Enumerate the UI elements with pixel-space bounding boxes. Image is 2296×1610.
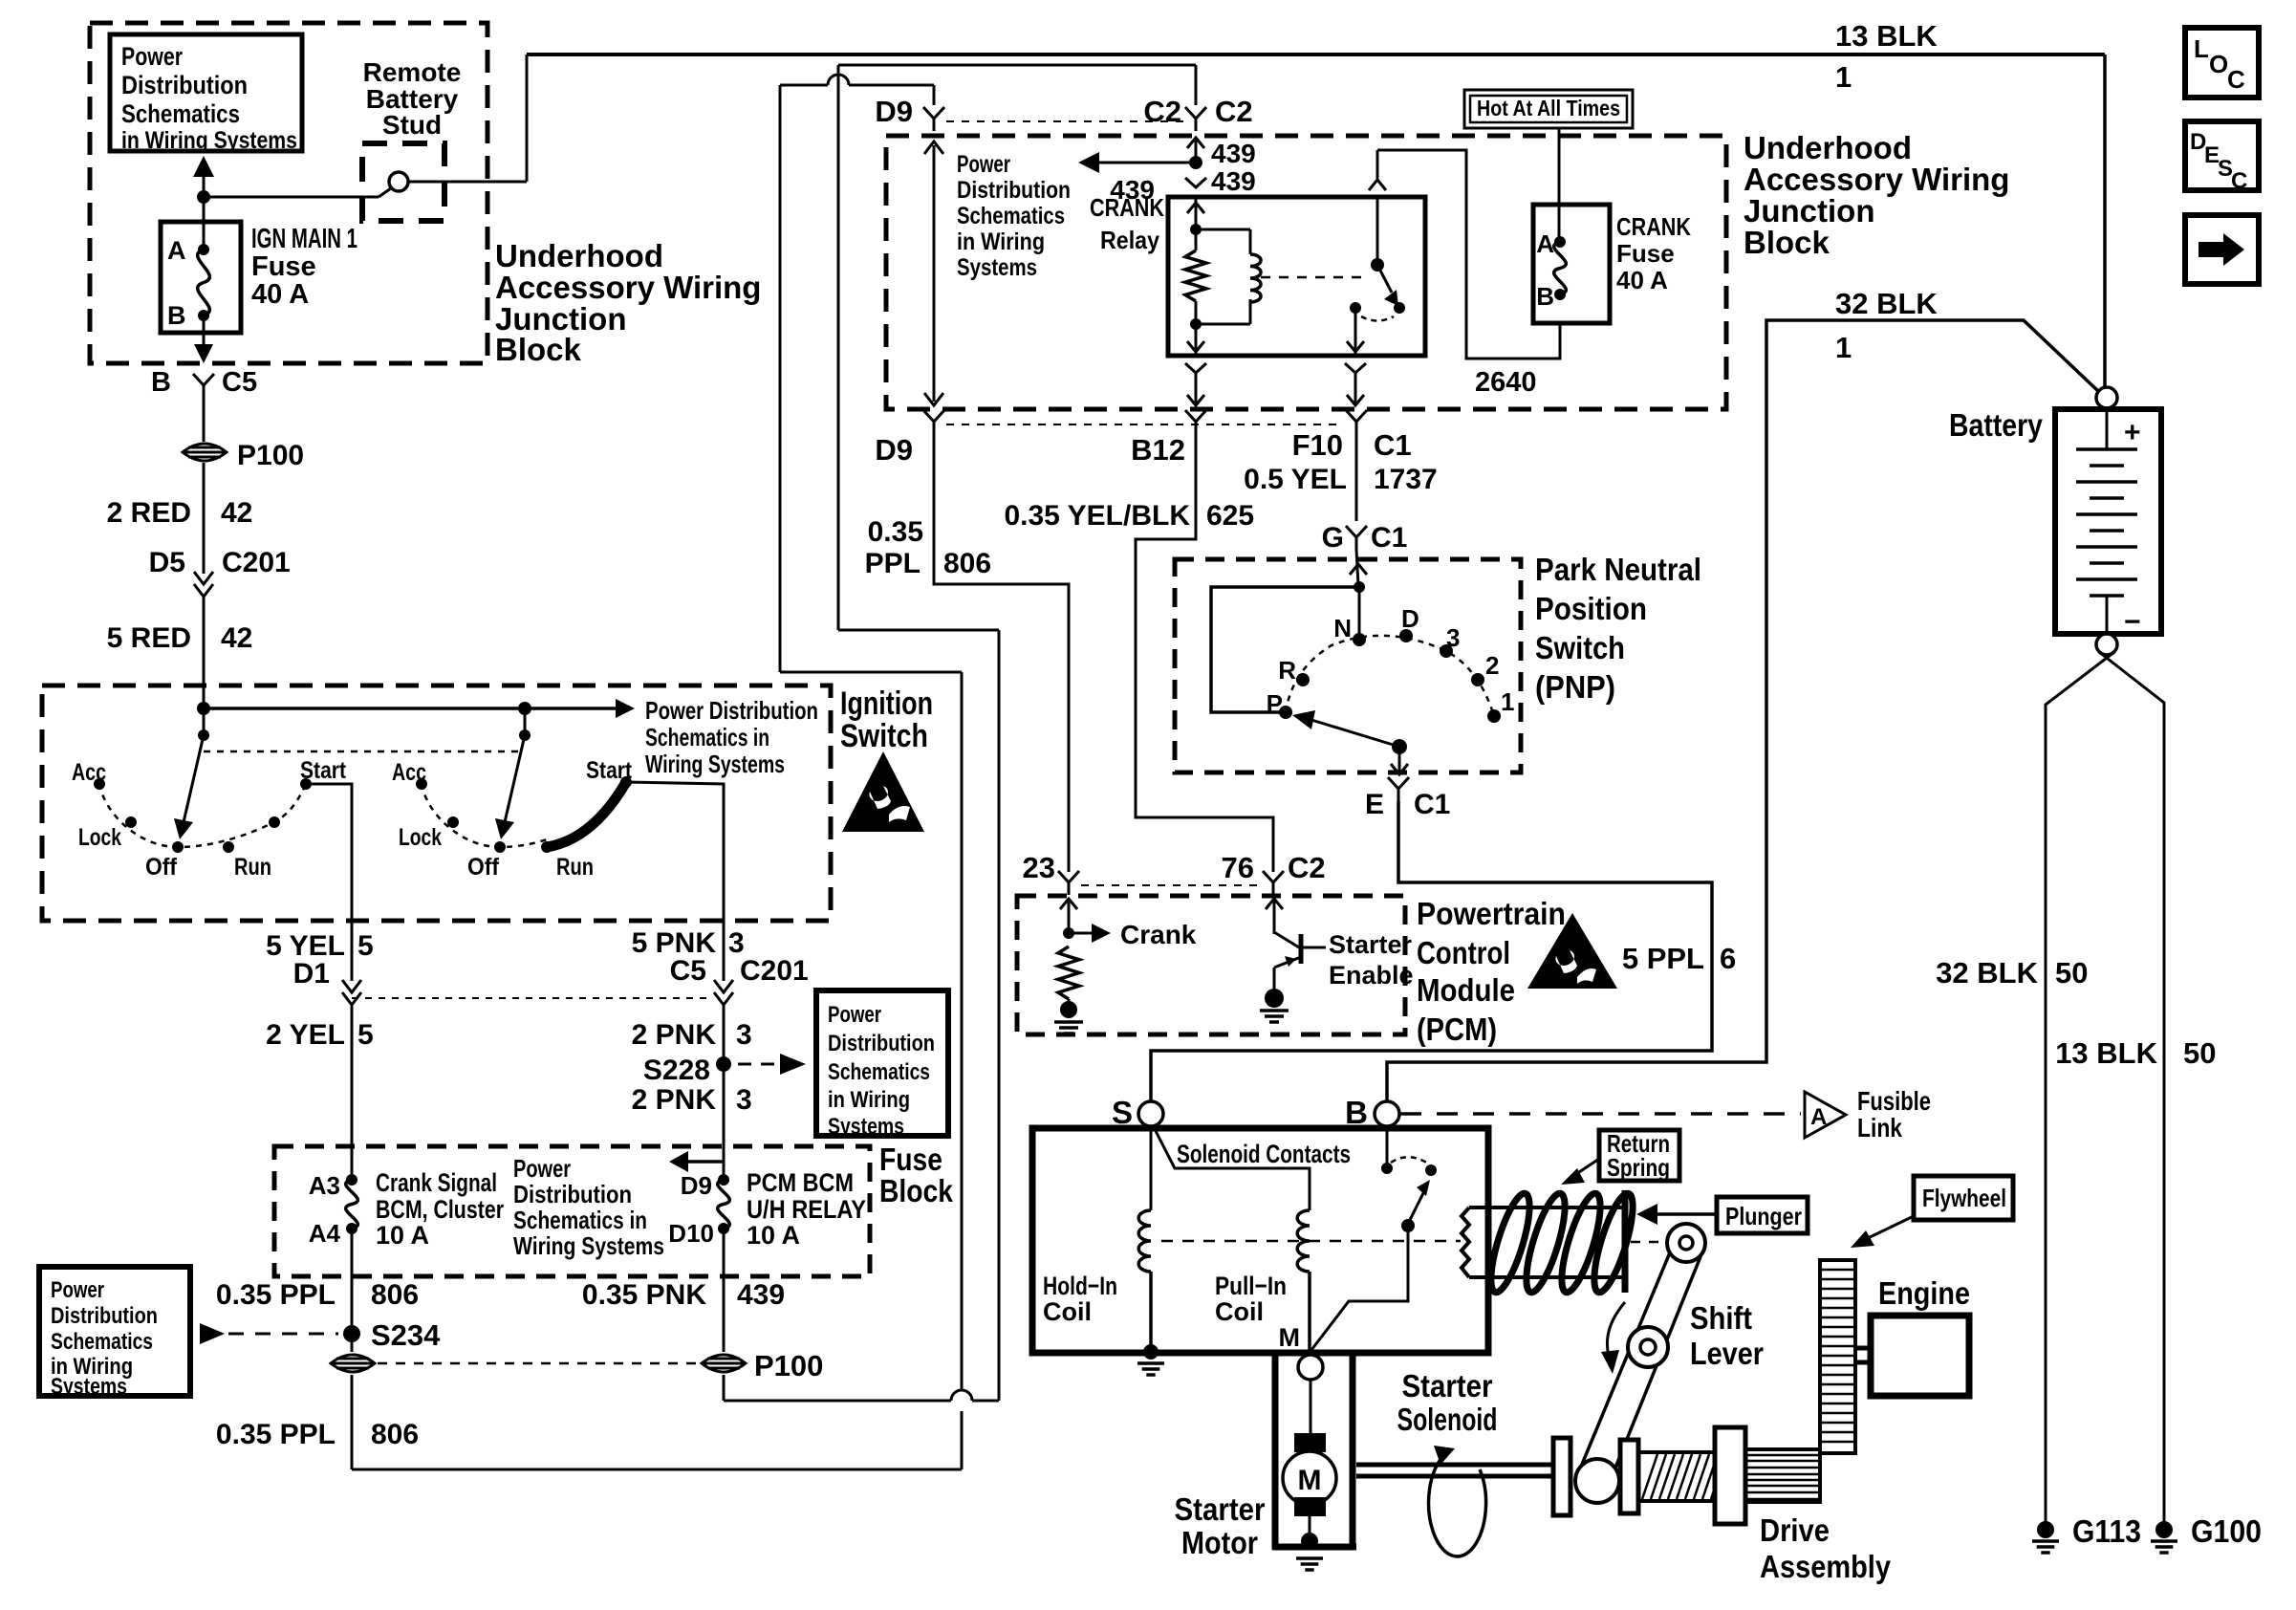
svg-text:2640: 2640 xyxy=(1475,367,1537,398)
fuse Crank Signal BCM Cluster 10 A xyxy=(309,1171,358,1248)
wire 13 BLK (top bus) xyxy=(527,19,2105,94)
svg-text:Link: Link xyxy=(1857,1113,1902,1142)
svg-text:2: 2 xyxy=(1485,651,1499,680)
svg-text:2 RED: 2 RED xyxy=(107,497,191,529)
svg-text:C201: C201 xyxy=(222,547,291,578)
svg-text:76: 76 xyxy=(1222,851,1254,884)
battery + terminal xyxy=(2096,387,2117,408)
label box: Power Distribution Schematics in Wiring Systems xyxy=(110,34,302,154)
boxed label: Power Distribution Schematics in Wiring Systems (S228) xyxy=(816,990,948,1140)
svg-text:Plunger: Plunger xyxy=(1725,1202,1802,1230)
svg-text:Battery: Battery xyxy=(1949,407,2044,443)
arrow: plunger leader xyxy=(1636,1204,1717,1225)
svg-text:Schematics: Schematics xyxy=(121,99,240,128)
svg-text:2 PNK: 2 PNK xyxy=(632,1019,717,1051)
svg-text:F10: F10 xyxy=(1292,428,1343,462)
wire PPL vertical mid-run with hop crossing xyxy=(961,672,964,1390)
svg-text:in Wiring: in Wiring xyxy=(957,228,1045,255)
svg-text:1: 1 xyxy=(1835,331,1852,364)
label: Power Distribution Schematics in Wiring Systems (fuse block) xyxy=(513,1154,664,1260)
svg-text:(PNP): (PNP) xyxy=(1535,669,1615,705)
label: Power Distribution Schematics in Wiring Systems (junction block) xyxy=(957,151,1071,281)
connector C201 (double chevron) xyxy=(714,980,733,992)
PCM pin connectors 23 / 76 C2 xyxy=(1081,884,1262,886)
relay switch: common pivot and arm xyxy=(1371,197,1405,314)
svg-text:2 YEL: 2 YEL xyxy=(266,1019,345,1051)
svg-text:3: 3 xyxy=(1446,623,1460,652)
svg-text:+: + xyxy=(2124,417,2141,448)
svg-text:Block: Block xyxy=(1744,225,1830,260)
svg-text:3: 3 xyxy=(736,1019,752,1051)
svg-text:Distribution: Distribution xyxy=(957,177,1071,204)
wire 2 RED 42 xyxy=(107,463,253,574)
svg-text:0.5 YEL: 0.5 YEL xyxy=(1244,464,1347,495)
svg-text:Schematics in: Schematics in xyxy=(513,1206,647,1234)
wire: stud to IGN MAIN feed xyxy=(204,196,379,199)
dashed box: Park Neutral Position Switch xyxy=(1175,559,1521,772)
arrow: feed from D9 wire to left xyxy=(669,1151,724,1172)
dashed actuation axis xyxy=(1161,1240,1461,1243)
svg-text:BCM, Cluster: BCM, Cluster xyxy=(376,1195,504,1224)
svg-text:32 BLK: 32 BLK xyxy=(1835,287,1938,320)
label: Underhood Accessory Wiring Junction Block (right) xyxy=(1744,130,2009,260)
svg-text:S: S xyxy=(1112,1095,1133,1130)
svg-text:Acc: Acc xyxy=(392,759,426,786)
wire 0.35 PPL 806 to PCM 23 xyxy=(865,434,1069,872)
hold-in coil xyxy=(1138,1126,1151,1348)
wiper 1 arrow to Off xyxy=(174,735,204,839)
rotation arrow xyxy=(1429,1446,1486,1556)
svg-text:13 BLK: 13 BLK xyxy=(1835,19,1938,53)
svg-text:Systems: Systems xyxy=(957,254,1037,281)
shift lever xyxy=(1575,1224,1705,1503)
svg-text:Park Neutral: Park Neutral xyxy=(1535,552,1701,587)
svg-text:A4: A4 xyxy=(309,1219,341,1248)
svg-text:B: B xyxy=(1345,1095,1368,1130)
svg-text:Control: Control xyxy=(1417,935,1510,970)
node dots on feed bus xyxy=(197,702,210,715)
svg-text:Position: Position xyxy=(1535,591,1647,626)
dashed box: Ignition Switch xyxy=(42,685,831,921)
wire: D9 pass-through inside junction block (both-end arrows) xyxy=(924,141,943,405)
svg-text:Run: Run xyxy=(556,854,594,881)
svg-text:P: P xyxy=(1267,689,1283,718)
wire/arrow: 439 feed to left xyxy=(1078,152,1196,205)
svg-text:A3: A3 xyxy=(309,1171,340,1200)
flywheel ring gear xyxy=(1820,1260,1855,1453)
svg-text:Distribution: Distribution xyxy=(828,1031,935,1056)
svg-text:A: A xyxy=(1536,229,1554,258)
svg-text:Crank Signal: Crank Signal xyxy=(376,1168,497,1197)
svg-text:C201: C201 xyxy=(740,955,809,987)
wire 5 PPL 6 : PNP E to solenoid S xyxy=(1151,801,1736,1101)
label 5 YEL 5 / D1 xyxy=(266,930,374,990)
switch 2 closed contact Run-Start (thick arc) xyxy=(547,782,626,847)
svg-text:Off: Off xyxy=(467,854,500,881)
svg-text:E: E xyxy=(1365,789,1384,820)
shaft flange xyxy=(1553,1438,1570,1515)
svg-text:3: 3 xyxy=(736,1084,752,1116)
terminal S xyxy=(1112,1095,1163,1130)
svg-text:Run: Run xyxy=(234,854,271,881)
dashed gang line between switch wipers xyxy=(204,751,525,753)
rotary switch 2 contacts xyxy=(416,776,632,853)
svg-text:Wiring Systems: Wiring Systems xyxy=(645,750,785,778)
connector D1 (double chevron) xyxy=(342,980,361,992)
svg-text:C5: C5 xyxy=(222,367,257,398)
svg-text:PCM BCM: PCM BCM xyxy=(747,1168,854,1197)
wiper 2 stem xyxy=(519,708,531,741)
svg-text:C1: C1 xyxy=(1374,428,1412,462)
remote battery stud (dashed box with terminal circle) xyxy=(362,143,444,221)
svg-text:D: D xyxy=(1401,604,1419,633)
svg-text:625: 625 xyxy=(1206,500,1254,532)
svg-text:Flywheel: Flywheel xyxy=(1922,1184,2006,1212)
svg-text:Lever: Lever xyxy=(1690,1336,1764,1371)
battery plates xyxy=(2076,409,2141,638)
svg-text:C2: C2 xyxy=(1143,95,1181,128)
label: IGN MAIN 1 Fuse 40 A xyxy=(251,224,357,310)
dashed wire: B to fusible link xyxy=(1400,1112,1801,1116)
svg-text:Off: Off xyxy=(145,854,178,881)
svg-text:1737: 1737 xyxy=(1374,464,1438,495)
svg-text:439: 439 xyxy=(1211,139,1256,168)
svg-text:A: A xyxy=(167,236,186,265)
svg-text:Power: Power xyxy=(51,1277,104,1303)
svg-text:B: B xyxy=(1536,282,1554,311)
svg-text:Schematics: Schematics xyxy=(957,203,1065,229)
node: 439 junction dot + arrows at C2 entry xyxy=(1185,138,1256,196)
svg-text:D9: D9 xyxy=(875,95,913,128)
svg-text:Systems: Systems xyxy=(51,1374,127,1400)
connector B / C5 xyxy=(151,367,257,398)
PNP contact arc dots N R P D 3 2 1 xyxy=(1279,629,1501,723)
svg-text:0.35 YEL/BLK: 0.35 YEL/BLK xyxy=(1004,500,1190,532)
svg-text:Module: Module xyxy=(1417,972,1515,1008)
label: CRANK Fuse 40 A xyxy=(1616,212,1691,294)
wire 0.5 YEL 1737 to PNP G xyxy=(1244,434,1438,521)
label 2 PNK 3 (lower) xyxy=(632,1084,752,1116)
label: Hold-In Coil xyxy=(1043,1272,1117,1326)
label: Fuse Block xyxy=(879,1142,954,1208)
wire 32 BLK 50 to G113 xyxy=(1936,652,2114,1522)
terminal M xyxy=(1279,1323,1324,1380)
dashed link plunger to shift lever xyxy=(1631,1241,1665,1244)
svg-text:Hold−In: Hold−In xyxy=(1043,1272,1117,1300)
wire: Hot feed down to CRANK fuse xyxy=(1558,128,1561,242)
svg-text:42: 42 xyxy=(221,497,252,529)
svg-text:1: 1 xyxy=(1501,687,1514,716)
svg-text:1: 1 xyxy=(1835,60,1852,94)
dashed connector line D9-C2 xyxy=(946,120,1183,122)
splice S228 xyxy=(643,1054,806,1086)
svg-text:40 A: 40 A xyxy=(1616,266,1668,294)
svg-text:13 BLK: 13 BLK xyxy=(2055,1036,2157,1070)
icon: ignition switch ESD triangle xyxy=(842,751,924,832)
svg-text:Fuse: Fuse xyxy=(879,1142,942,1177)
wire into PNP xyxy=(1350,550,1367,585)
svg-text:Powertrain: Powertrain xyxy=(1417,896,1566,931)
PNP wiper output arrow down xyxy=(1391,754,1408,774)
svg-text:6: 6 xyxy=(1720,942,1736,975)
svg-text:32 BLK: 32 BLK xyxy=(1936,956,2038,990)
return spring label box xyxy=(1599,1129,1679,1182)
svg-text:5 RED: 5 RED xyxy=(107,622,191,654)
svg-text:5: 5 xyxy=(357,1019,374,1051)
node: junction dot on IGN MAIN wire xyxy=(197,190,210,204)
svg-text:Junction: Junction xyxy=(1744,193,1875,228)
svg-text:Drive: Drive xyxy=(1760,1512,1830,1548)
PNP wiper arm to P xyxy=(1292,710,1407,754)
svg-text:Enable: Enable xyxy=(1329,961,1414,990)
svg-text:0.35 PNK: 0.35 PNK xyxy=(582,1279,706,1311)
label: Starter Solenoid xyxy=(1397,1368,1498,1437)
wire 0.35 PPL 806 (below fuse) xyxy=(216,1229,419,1334)
svg-text:Underhood: Underhood xyxy=(1744,130,1912,165)
svg-text:C2: C2 xyxy=(1215,95,1253,128)
svg-text:50: 50 xyxy=(2055,956,2088,990)
wire PPL: P100 down, right, up (left leg) xyxy=(216,1375,962,1469)
wire PNK: P100 down, right with hop, up (right leg) xyxy=(724,630,999,1401)
arrow: shift lever motion xyxy=(1601,1302,1625,1374)
icon: DESC box xyxy=(2185,121,2259,194)
svg-text:Spring: Spring xyxy=(1607,1153,1670,1182)
fuse CRANK 40 A xyxy=(1533,205,1610,323)
plunger body xyxy=(1462,1190,1625,1293)
wire to P100 xyxy=(203,398,206,442)
svg-text:in Wiring: in Wiring xyxy=(828,1087,910,1113)
svg-text:439: 439 xyxy=(737,1279,785,1311)
label: Starter Motor xyxy=(1175,1491,1266,1560)
svg-text:D5: D5 xyxy=(149,547,185,578)
svg-text:G100: G100 xyxy=(2191,1513,2262,1549)
svg-text:S228: S228 xyxy=(643,1055,710,1086)
wire 0.35 PNK 439 (below fuse) xyxy=(582,1229,785,1352)
PNP contact labels xyxy=(1267,604,1515,718)
svg-text:in Wiring Systems: in Wiring Systems xyxy=(121,127,297,154)
rotary switch 2 labels xyxy=(392,757,633,881)
svg-text:Power: Power xyxy=(828,1002,881,1028)
svg-text:G: G xyxy=(1322,522,1344,554)
plunger label box xyxy=(1717,1197,1808,1233)
svg-text:M: M xyxy=(1298,1465,1322,1496)
remote battery stud label xyxy=(363,57,462,140)
dashed box: PCM xyxy=(1017,896,1405,1034)
svg-text:D1: D1 xyxy=(293,958,330,990)
relay output pins below box xyxy=(1185,363,1206,405)
boxed label: Power Distribution Schematics in Wiring Systems (bottom-left) xyxy=(39,1267,190,1400)
wire 5 RED 42 xyxy=(107,597,253,708)
svg-text:Starter: Starter xyxy=(1402,1368,1493,1403)
svg-text:S234: S234 xyxy=(371,1318,441,1352)
PNP frame (inner box) xyxy=(1211,587,1359,712)
svg-text:D10: D10 xyxy=(668,1219,714,1248)
label: Drive Assembly xyxy=(1760,1512,1892,1584)
junction block bottom connectors D9 B12 F10 C1 xyxy=(946,424,1343,425)
relay switch: NO contact xyxy=(1347,302,1394,354)
svg-text:Fuse: Fuse xyxy=(1616,239,1675,268)
svg-text:Fusible: Fusible xyxy=(1857,1086,1931,1116)
dashed box: Fuse Block xyxy=(274,1146,870,1276)
svg-text:Switch: Switch xyxy=(840,718,928,754)
battery - terminal xyxy=(2096,634,2117,655)
rotary switch 1 labels xyxy=(72,757,347,881)
svg-text:0.35 PPL: 0.35 PPL xyxy=(216,1419,336,1450)
svg-text:5 PPL: 5 PPL xyxy=(1622,942,1704,975)
svg-text:G113: G113 xyxy=(2072,1513,2141,1549)
wire: S to pull-in coil (under label) xyxy=(1156,1131,1310,1210)
label: Crank Signal BCM, Cluster 10 A xyxy=(376,1168,504,1250)
label: Hot At All Times (double box) xyxy=(1464,90,1633,128)
motor shaft xyxy=(1356,1465,1553,1476)
solenoid box xyxy=(1032,1128,1488,1353)
fuse PCM BCM U/H RELAY 10 A xyxy=(668,1171,729,1248)
arrow + dashed leader to S234 xyxy=(200,1323,338,1344)
svg-text:Motor: Motor xyxy=(1181,1525,1258,1560)
svg-text:806: 806 xyxy=(371,1419,419,1450)
svg-text:Remote: Remote xyxy=(363,57,462,87)
connector P100 (pair, bottom) xyxy=(331,1334,823,1382)
relay coil bottom node + exit arrow xyxy=(1187,318,1204,354)
wire 0.35 YEL/BLK 625 to PCM 76 xyxy=(1004,434,1273,872)
wire 2 PNK 3 (upper) xyxy=(632,1005,752,1180)
svg-text:Starter: Starter xyxy=(1329,930,1413,959)
svg-text:Starter: Starter xyxy=(1175,1491,1266,1527)
svg-text:Ignition: Ignition xyxy=(840,685,933,722)
node: G input dot xyxy=(1354,581,1365,593)
svg-text:PPL: PPL xyxy=(865,548,921,579)
label 5 PNK 3 / C5 C201 xyxy=(632,927,809,987)
wire PPL: across and up to D9 (y=703 / x=816 / y=89) xyxy=(780,75,962,672)
wire + arrow leaving fuse down xyxy=(194,315,213,363)
svg-text:Underhood: Underhood xyxy=(495,238,663,273)
svg-text:806: 806 xyxy=(943,548,991,579)
svg-text:C2: C2 xyxy=(1288,851,1326,884)
arrow up to Power Distribution Schematics xyxy=(193,156,214,197)
svg-text:Distribution: Distribution xyxy=(513,1180,632,1208)
svg-text:CRANK: CRANK xyxy=(1616,212,1691,241)
starter motor brushes + armature xyxy=(1283,1380,1336,1537)
svg-text:C: C xyxy=(2231,168,2247,194)
relay: dashed actuation link xyxy=(1261,276,1367,279)
svg-text:Schematics: Schematics xyxy=(51,1329,153,1355)
svg-text:P100: P100 xyxy=(237,440,304,471)
svg-text:IGN MAIN 1: IGN MAIN 1 xyxy=(251,224,357,254)
PCM starter enable transistor xyxy=(1260,899,1414,1022)
return spring coils xyxy=(1484,1190,1640,1296)
svg-text:M: M xyxy=(1279,1323,1301,1352)
svg-text:Schematics: Schematics xyxy=(828,1059,930,1085)
wire: Start 1 output xyxy=(306,784,352,981)
svg-text:−: − xyxy=(2124,606,2141,638)
connector P100 (top) xyxy=(183,440,304,471)
svg-text:Accessory Wiring: Accessory Wiring xyxy=(495,270,761,305)
rotary switch 1 contacts (Acc Lock Off Run Start) xyxy=(94,778,312,853)
svg-text:Solenoid: Solenoid xyxy=(1397,1402,1498,1437)
dashed connector line C201 xyxy=(352,997,713,999)
wiper 1 stem xyxy=(198,708,209,741)
svg-text:439: 439 xyxy=(1211,166,1256,196)
svg-text:C: C xyxy=(2227,65,2245,94)
svg-text:D9: D9 xyxy=(681,1171,712,1200)
relay resistor xyxy=(1185,250,1206,301)
dashed box: Underhood Accessory Wiring Junction Block (top-middle) xyxy=(886,136,1726,409)
connector G / C1 xyxy=(1322,522,1408,554)
splice S234 xyxy=(343,1318,441,1352)
svg-text:P100: P100 xyxy=(754,1349,823,1382)
svg-text:R: R xyxy=(1278,656,1296,685)
wire PNK: across and up to C2 (y=659 / x=877 / y=68) xyxy=(838,65,1196,630)
pull-in coil xyxy=(1297,1210,1310,1351)
svg-text:B: B xyxy=(167,301,186,330)
label: Flywheel (boxed) xyxy=(1914,1176,2013,1220)
wire: S feed from PCM/PNP net xyxy=(1150,1051,1152,1101)
svg-text:Coil: Coil xyxy=(1215,1297,1264,1326)
label: PCM BCM U/H RELAY 10 A xyxy=(747,1168,866,1250)
svg-text:40 A: 40 A xyxy=(251,279,309,310)
wire: Start 2 output xyxy=(626,782,724,981)
svg-text:CRANK: CRANK xyxy=(1090,193,1164,222)
svg-text:C5: C5 xyxy=(670,955,706,987)
label: CRANK Relay xyxy=(1090,193,1164,254)
svg-text:Shift: Shift xyxy=(1690,1300,1752,1336)
relay box (CRANK Relay) xyxy=(1168,197,1425,356)
connector E / C1 xyxy=(1365,777,1450,820)
icon: PCM ESD triangle xyxy=(1527,913,1617,989)
svg-text:Systems: Systems xyxy=(828,1114,904,1140)
starter motor housing xyxy=(1272,1353,1356,1550)
svg-text:B: B xyxy=(151,367,171,398)
svg-text:Relay: Relay xyxy=(1100,226,1159,254)
ground G100 xyxy=(2151,1513,2262,1553)
arrow: flywheel leader xyxy=(1851,1216,1914,1248)
svg-text:Acc: Acc xyxy=(72,759,106,786)
ground: hold-in coil xyxy=(1137,1344,1164,1375)
svg-text:Assembly: Assembly xyxy=(1760,1549,1892,1584)
wire 32 BLK 1 : from battery to solenoid B xyxy=(1387,287,2099,1101)
relay common feed from crank fuse xyxy=(1369,150,1560,398)
svg-text:Coil: Coil xyxy=(1043,1297,1092,1326)
svg-text:806: 806 xyxy=(371,1279,419,1311)
svg-text:U/H RELAY: U/H RELAY xyxy=(747,1195,866,1224)
label: Fusible Link xyxy=(1857,1086,1931,1142)
svg-text:Fuse: Fuse xyxy=(251,251,316,282)
svg-text:Wiring Systems: Wiring Systems xyxy=(513,1231,664,1260)
svg-text:Hot At All Times: Hot At All Times xyxy=(1477,96,1620,120)
svg-text:Stud: Stud xyxy=(382,110,442,140)
wire: feed bus inside ignition switch xyxy=(204,699,635,718)
PCM crank driver: arrow + resistor to ground xyxy=(1054,899,1197,1033)
svg-text:Power Distribution: Power Distribution xyxy=(645,696,818,725)
svg-text:2 PNK: 2 PNK xyxy=(632,1084,717,1116)
svg-text:Solenoid Contacts: Solenoid Contacts xyxy=(1177,1140,1351,1168)
svg-text:Distribution: Distribution xyxy=(121,71,248,99)
svg-text:23: 23 xyxy=(1023,851,1055,884)
svg-text:Power: Power xyxy=(121,42,183,71)
svg-text:Power: Power xyxy=(957,151,1010,178)
svg-text:Crank: Crank xyxy=(1120,920,1197,949)
wire: 13 BLK down to battery + xyxy=(2103,54,2107,387)
wiper 2 arrow to Off xyxy=(495,735,525,839)
relay coil xyxy=(1196,229,1261,324)
svg-text:(PCM): (PCM) xyxy=(1417,1012,1497,1047)
svg-text:D9: D9 xyxy=(875,433,913,467)
ground: starter motor xyxy=(1296,1533,1323,1570)
icon: LOC box xyxy=(2185,28,2259,98)
connector D5 / C201 xyxy=(149,547,291,597)
engine block xyxy=(1871,1316,1969,1396)
arrow: return spring leader xyxy=(1561,1159,1599,1185)
